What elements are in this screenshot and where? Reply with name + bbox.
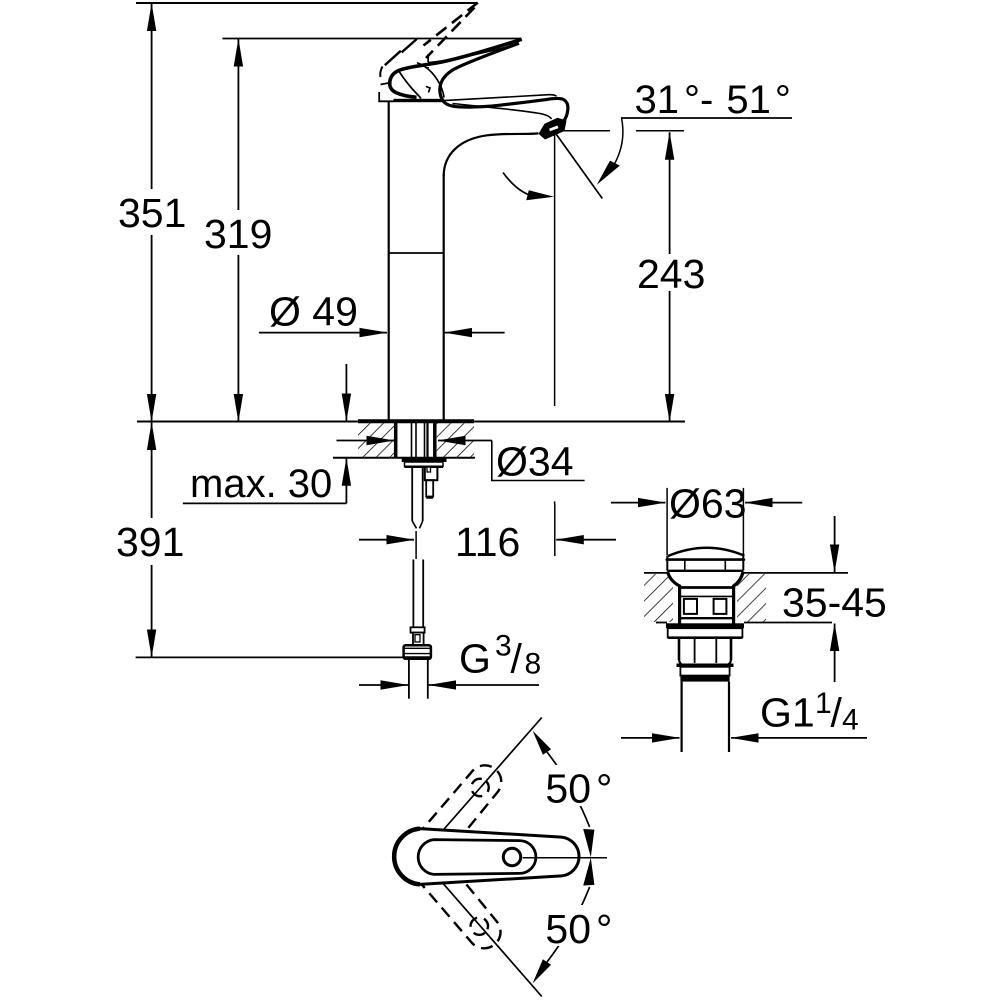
wire 31-51 underline <box>621 117 792 119</box>
node text halo lower <box>541 905 612 946</box>
node dashed handle up <box>416 758 508 859</box>
deck counter bottom line <box>333 457 475 459</box>
node aerator axis line <box>554 132 556 406</box>
node drain interior <box>680 586 734 589</box>
node angle arc arrowhead <box>597 161 620 185</box>
node dashed knob edge <box>402 39 417 52</box>
node body top shadow bar <box>394 99 443 102</box>
svg-text:319: 319 <box>204 211 272 257</box>
node drain body mask <box>666 556 746 622</box>
faucet body outline <box>379 3 568 422</box>
faucet shank and tubes below deck <box>396 422 447 699</box>
node dashed dome <box>427 54 429 68</box>
node hose end tube <box>408 660 410 699</box>
node arc arrowheads <box>533 731 552 755</box>
node shank pipe lines <box>411 422 413 458</box>
node dashed handle down <box>416 855 508 956</box>
dimension max30 upper arrow <box>345 364 347 421</box>
svg-text:391: 391 <box>116 519 184 565</box>
node outer outline <box>394 829 579 885</box>
node locknut <box>678 639 681 660</box>
node washer bar <box>402 458 447 462</box>
dimension d49 <box>259 332 387 334</box>
node drain flare <box>668 572 680 624</box>
node supply tube centerline <box>415 531 417 559</box>
svg-text:1: 1 <box>815 687 832 720</box>
node cartridge dome right <box>417 63 444 98</box>
node spout inner line <box>453 104 552 120</box>
svg-text:Ø34: Ø34 <box>496 439 574 485</box>
node washer bar drain <box>666 623 744 628</box>
svg-text:G1: G1 <box>760 690 815 736</box>
wire extension line 319 <box>222 38 521 40</box>
node aerator <box>539 118 567 140</box>
svg-text:/: / <box>511 636 523 682</box>
node left ledge <box>379 92 393 101</box>
svg-text:351: 351 <box>118 190 186 236</box>
node body joint line <box>389 252 444 254</box>
svg-text:116: 116 <box>455 519 520 565</box>
dimension 116 <box>359 539 414 541</box>
svg-text:31°-51°: 31°-51° <box>635 78 791 122</box>
counter hatch right <box>437 423 474 457</box>
node tailpipe <box>680 682 682 752</box>
node flow arc arrowhead <box>526 190 554 200</box>
node spout underside <box>444 133 539 176</box>
node handle blade bottom edge and spout top edge <box>440 43 568 124</box>
svg-text:4: 4 <box>842 704 859 737</box>
drain assembly <box>611 488 802 556</box>
node 116 extension line <box>554 504 556 557</box>
wire max30 underline <box>183 502 347 504</box>
node spout top thin line <box>444 95 557 101</box>
node inner outline <box>418 840 536 875</box>
node handle inner top line <box>428 45 516 63</box>
node sealing washer <box>668 628 743 637</box>
node supply tube upper <box>411 467 413 521</box>
wire counter top line drain <box>644 572 668 574</box>
counter hatch left <box>358 423 395 457</box>
dimension 243 vertical <box>669 132 671 254</box>
node hose nut <box>404 645 431 659</box>
node screw hole <box>503 848 520 865</box>
node dashed knob face <box>380 67 382 78</box>
counter hatch drain left <box>644 574 673 622</box>
node flow arc <box>503 173 540 198</box>
wire top extension line 351 <box>136 2 477 4</box>
deck counter top line <box>137 421 358 423</box>
node dashed handle bottom edge <box>426 8 475 59</box>
svg-text:50°: 50° <box>545 766 612 812</box>
node body right edge <box>443 174 445 422</box>
node ray down <box>420 857 542 997</box>
svg-text:8: 8 <box>525 648 542 681</box>
node coupling <box>680 667 729 676</box>
counter hatch drain right <box>737 574 766 622</box>
dimension G3/8 <box>359 684 408 686</box>
svg-text:3: 3 <box>495 630 512 663</box>
wire bottom extension line 391 <box>136 656 404 658</box>
svg-text:/: / <box>831 690 843 736</box>
svg-text:G: G <box>459 636 491 682</box>
svg-text:Ø63: Ø63 <box>669 481 747 527</box>
node pull rod socket <box>425 467 438 480</box>
node body left edge <box>388 101 390 421</box>
svg-text:243: 243 <box>637 251 705 297</box>
node angle arc down <box>547 887 590 962</box>
node text halo upper <box>541 765 612 806</box>
wire counter bottom line drain <box>656 622 667 624</box>
node angle arc up <box>547 752 590 827</box>
dimension G1 1/4 <box>621 737 680 739</box>
node ray up <box>420 718 542 857</box>
node aerator level line <box>558 130 610 132</box>
svg-text:50°: 50° <box>545 906 612 952</box>
wire centerline <box>523 857 607 859</box>
node hose collar <box>411 627 425 632</box>
svg-text:35-45: 35-45 <box>782 580 887 626</box>
node angle arc 31-51 <box>615 118 623 163</box>
svg-text:max. 30: max. 30 <box>190 462 332 506</box>
dimension 351 vertical <box>151 4 153 190</box>
node spray angle diagonal <box>555 132 603 199</box>
dimension 391 vertical <box>151 423 153 519</box>
node shank right wall <box>433 422 437 458</box>
node dashed handle top edge <box>424 3 478 46</box>
node cartridge dome left <box>399 71 421 99</box>
dimension d34 leader <box>337 440 395 442</box>
node supply tube lower <box>412 560 414 628</box>
node handle blade top edge <box>390 39 522 97</box>
node drain cap dome <box>668 548 745 556</box>
node shank left wall <box>394 422 398 458</box>
dimension 319 vertical <box>237 39 239 210</box>
svg-text:Ø 49: Ø 49 <box>269 289 358 335</box>
dimension 35-45 <box>834 516 836 572</box>
top view of handle <box>394 718 607 997</box>
dimension d63 <box>611 502 665 504</box>
node flange <box>405 462 444 467</box>
node d63 extension lines <box>666 488 668 556</box>
dimension max30 lower arrow <box>345 458 347 503</box>
